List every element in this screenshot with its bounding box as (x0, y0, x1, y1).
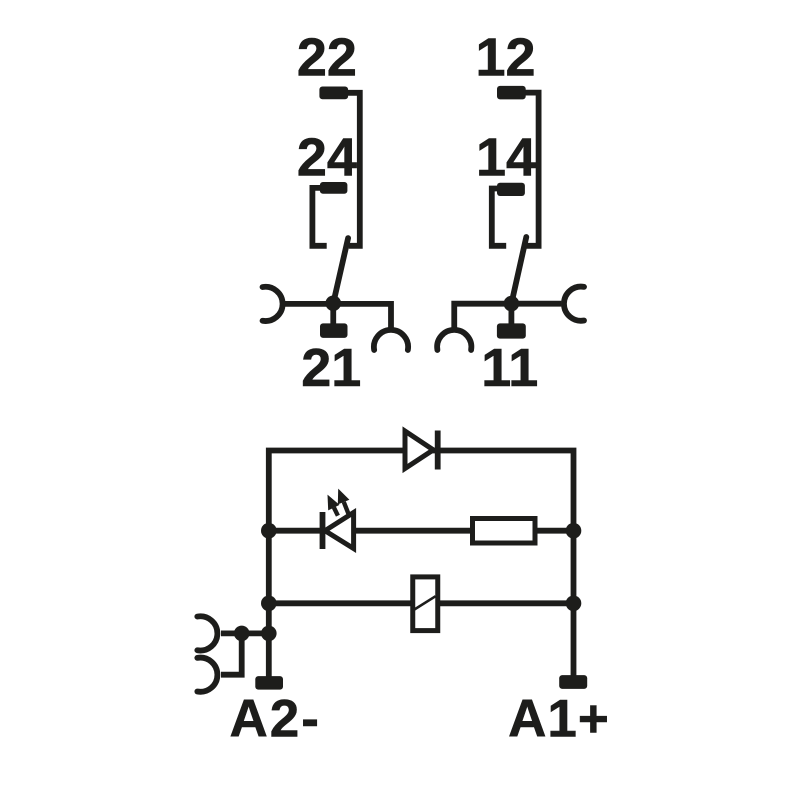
svg-text:11: 11 (481, 338, 538, 398)
svg-text:12: 12 (475, 28, 535, 88)
svg-text:22: 22 (297, 28, 357, 88)
svg-text:21: 21 (301, 338, 361, 398)
svg-text:A2-: A2- (229, 690, 320, 749)
svg-text:14: 14 (476, 128, 536, 188)
svg-text:A1+: A1+ (508, 690, 610, 749)
svg-text:24: 24 (297, 128, 357, 188)
